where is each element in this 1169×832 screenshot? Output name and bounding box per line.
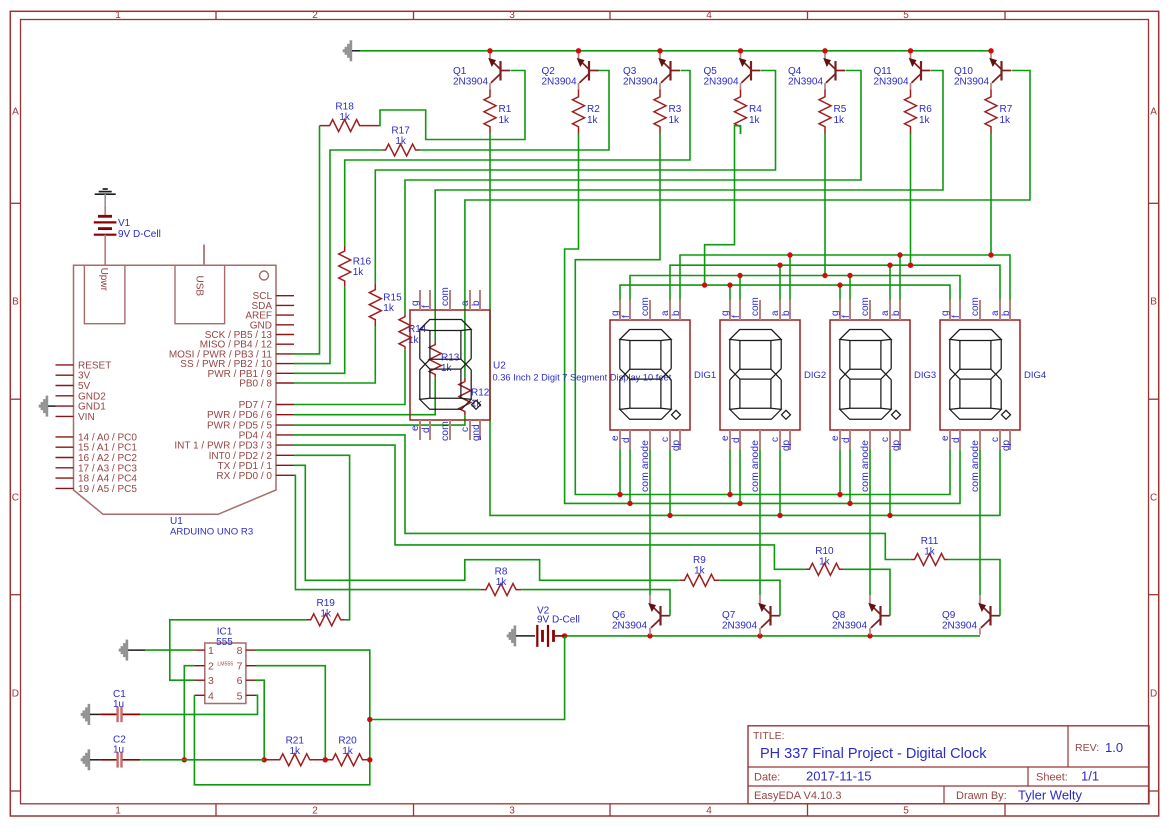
svg-text:a: a <box>770 310 781 316</box>
svg-text:5: 5 <box>903 806 909 817</box>
svg-text:Sheet:: Sheet: <box>1036 772 1068 784</box>
svg-text:IC1: IC1 <box>217 627 233 638</box>
timer IC1 555 <box>194 627 256 704</box>
svg-text:R21: R21 <box>286 736 305 747</box>
svg-text:Q6: Q6 <box>612 610 626 621</box>
junction V2 positive <box>562 633 567 638</box>
svg-text:1k: 1k <box>694 566 706 577</box>
resistor R10 1k <box>805 546 844 575</box>
resistor R15 1k <box>369 283 402 326</box>
svg-text:D: D <box>1150 689 1157 700</box>
svg-text:9V D-Cell: 9V D-Cell <box>118 229 161 240</box>
svg-text:Upwr: Upwr <box>98 268 109 292</box>
wire a bus drop to display at x=830 <box>889 265 891 301</box>
svg-text:R8: R8 <box>495 567 508 578</box>
wire 555 pin 5 to C1 <box>140 695 257 714</box>
wire R16 top to Q3 base <box>345 71 690 246</box>
svg-text:R6: R6 <box>919 104 932 115</box>
display DIG1 7 segment <box>610 297 716 492</box>
wire Arduino pin 10 to R17 <box>294 150 382 364</box>
svg-text:com: com <box>440 287 451 306</box>
svg-text:dp: dp <box>1001 439 1012 451</box>
svg-text:3: 3 <box>509 806 515 817</box>
svg-text:com anode: com anode <box>969 440 981 492</box>
svg-text:1k: 1k <box>289 746 301 757</box>
wire e bus drop display x=830 <box>839 447 841 495</box>
junction d drop <box>627 501 632 506</box>
svg-text:1: 1 <box>115 806 121 817</box>
wire R9 to Q7 base <box>719 580 780 615</box>
svg-text:RX / PD0 / 0: RX / PD0 / 0 <box>216 471 272 482</box>
wire R15 top to Q5 base <box>375 71 775 284</box>
svg-text:R15: R15 <box>383 293 402 304</box>
svg-text:b: b <box>671 310 682 316</box>
svg-text:com: com <box>860 297 871 316</box>
svg-text:Q1: Q1 <box>453 66 467 77</box>
wire g bus drop to display at x=720 <box>729 285 731 301</box>
svg-text:c: c <box>770 437 781 442</box>
transistor Q5 2N3904 <box>704 53 761 90</box>
svg-text:1u: 1u <box>113 745 124 756</box>
junction c drop <box>777 513 782 518</box>
wire Arduino pin 4 to R11 <box>294 435 911 560</box>
svg-text:1k: 1k <box>383 303 395 314</box>
svg-text:R5: R5 <box>834 104 847 115</box>
svg-text:g: g <box>830 310 841 316</box>
svg-text:6: 6 <box>237 675 243 687</box>
svg-text:1/1: 1/1 <box>1081 769 1099 784</box>
wire R5 to segment-f bus <box>824 134 826 276</box>
wire R3 to segment-e bus <box>575 134 950 495</box>
svg-text:a: a <box>460 300 471 306</box>
svg-text:e: e <box>610 435 621 441</box>
wire top emitter rail <box>360 50 991 52</box>
svg-text:R16: R16 <box>353 257 372 268</box>
svg-text:VIN: VIN <box>78 412 95 423</box>
junction pin2 trigger <box>182 757 187 762</box>
svg-text:2: 2 <box>312 806 318 817</box>
svg-text:1k: 1k <box>819 557 831 568</box>
wire d bus drop display x=720 <box>739 447 741 503</box>
svg-text:PWR / PD6 / 6: PWR / PD6 / 6 <box>207 410 272 421</box>
wire d bus drop display x=610 <box>629 447 631 503</box>
wire R11 to Q9 base <box>948 560 1000 616</box>
svg-text:c: c <box>660 437 671 442</box>
display DIG4 7 segment <box>940 297 1046 492</box>
svg-text:e: e <box>720 435 731 441</box>
svg-text:d: d <box>621 437 632 443</box>
transistor Q10 2N3904 <box>954 53 1011 90</box>
wire c bus drop display x=830 <box>889 447 891 515</box>
wire Arduino pin 8 to R15 <box>294 326 375 383</box>
wire R18 to Q1 base <box>379 71 525 140</box>
svg-text:b: b <box>891 310 902 316</box>
wire R13 top to Q11 base <box>435 71 943 342</box>
junction on rail at Q5 emitter <box>738 48 743 53</box>
junction on rail at Q11 emitter <box>908 48 913 53</box>
junction on rail at Q4 emitter <box>822 48 827 53</box>
svg-text:DIG2: DIG2 <box>804 370 826 381</box>
svg-text:d: d <box>731 437 742 443</box>
svg-text:R11: R11 <box>921 536 939 547</box>
svg-text:5: 5 <box>903 10 909 21</box>
wire c bus drop display x=610 <box>669 447 671 515</box>
svg-text:e: e <box>940 435 951 441</box>
transistor Q4 2N3904 <box>788 53 845 90</box>
wire Arduino pin 5 to R12 <box>294 415 465 425</box>
junction R4 feed on g bus <box>702 282 707 287</box>
svg-text:555: 555 <box>216 637 233 648</box>
wire DIG4 com anode to transistor <box>979 447 981 595</box>
svg-text:g: g <box>410 300 421 306</box>
svg-text:1: 1 <box>208 645 214 657</box>
svg-text:2N3904: 2N3904 <box>612 621 647 632</box>
svg-text:1.0: 1.0 <box>1105 740 1123 755</box>
svg-text:f: f <box>731 315 742 318</box>
resistor R4 1k <box>735 90 763 135</box>
svg-text:Q3: Q3 <box>623 66 637 77</box>
svg-text:1k: 1k <box>395 136 407 147</box>
svg-text:3: 3 <box>208 675 214 687</box>
resistor R21 1k <box>264 736 325 766</box>
svg-text:a: a <box>880 310 891 316</box>
transistor Q11 2N3904 <box>874 53 931 90</box>
svg-text:d: d <box>951 437 962 443</box>
svg-text:Date:: Date: <box>754 772 780 784</box>
transistor Q7 2N3904 <box>722 595 780 634</box>
resistor R2 1k <box>573 90 601 135</box>
wire c bus drop display x=720 <box>779 447 781 515</box>
junction rail at Q8 collector <box>867 633 872 638</box>
svg-text:g: g <box>610 310 621 316</box>
svg-text:1k: 1k <box>1000 115 1012 126</box>
svg-text:9V D-Cell: 9V D-Cell <box>537 615 580 626</box>
svg-text:Tyler Welty: Tyler Welty <box>1018 788 1083 803</box>
svg-text:2N3904: 2N3904 <box>874 77 909 88</box>
resistor R6 1k <box>905 90 933 135</box>
wire f bus drop to display at x=720 <box>739 276 741 302</box>
wire segment-a bus <box>670 265 1000 301</box>
wire e bus drop display x=610 <box>619 447 621 495</box>
svg-text:com anode: com anode <box>749 440 761 492</box>
svg-text:4: 4 <box>706 806 712 817</box>
svg-text:19 / A5 / PC5: 19 / A5 / PC5 <box>78 484 137 495</box>
svg-text:com: com <box>970 297 981 316</box>
svg-text:2N3904: 2N3904 <box>788 77 823 88</box>
resistor R7 1k <box>985 90 1013 135</box>
svg-text:f: f <box>421 305 432 308</box>
wire Arduino pin 6 to R13 <box>294 377 435 414</box>
transistor Q6 2N3904 <box>612 595 670 634</box>
svg-text:f: f <box>621 315 632 318</box>
svg-text:2N3904: 2N3904 <box>722 621 757 632</box>
svg-text:U1: U1 <box>170 516 183 527</box>
svg-text:dp: dp <box>781 439 792 451</box>
svg-text:R3: R3 <box>669 104 682 115</box>
svg-text:1k: 1k <box>834 115 846 126</box>
wire 555 pin 7 to R21 R20 junction <box>256 666 325 760</box>
svg-text:com: com <box>439 421 451 441</box>
wire C2 to R21 timing line <box>140 759 264 761</box>
wire R19 to 555 pin 3 <box>170 620 307 680</box>
junction c drop <box>667 513 672 518</box>
svg-text:R2: R2 <box>587 104 600 115</box>
resistor R12 1k <box>459 378 490 415</box>
wire R14 top to Q4 base <box>405 71 861 315</box>
wire 555 pin 1 to ground <box>145 649 194 651</box>
svg-text:2N3904: 2N3904 <box>453 77 488 88</box>
junction g drop <box>837 282 842 287</box>
svg-text:Drawn By:: Drawn By: <box>956 790 1007 802</box>
svg-text:PH 337 Final Project - Digital: PH 337 Final Project - Digital Clock <box>760 746 987 762</box>
wire R6 to segment-a bus <box>910 134 912 265</box>
resistor R1 1k <box>484 90 512 135</box>
battery V1 9V D-Cell <box>94 205 161 265</box>
svg-text:2N3904: 2N3904 <box>832 621 867 632</box>
svg-text:ARDUINO UNO R3: ARDUINO UNO R3 <box>170 527 253 538</box>
junction d drop <box>847 501 852 506</box>
svg-text:gnd: gnd <box>471 424 482 441</box>
svg-text:Q10: Q10 <box>954 66 973 77</box>
wire 555 pin 6 to trigger line <box>256 680 264 760</box>
title block <box>748 726 1149 804</box>
junction g drop <box>727 282 732 287</box>
wire R1 to segment-c bus <box>490 134 1000 515</box>
wire DIG2 com anode to transistor <box>759 447 761 595</box>
junction b drop <box>787 252 792 257</box>
resistor R5 1k <box>819 90 847 135</box>
wire R4 to segment-g bus <box>705 126 741 285</box>
junction rail at Q7 collector <box>757 633 762 638</box>
wire Arduino pin 1 to R9 <box>294 465 680 580</box>
svg-text:1u: 1u <box>113 699 124 710</box>
svg-text:0.36 Inch 2 Digit 7 Segment Di: 0.36 Inch 2 Digit 7 Segment Display 10 f… <box>493 373 672 383</box>
svg-text:d: d <box>421 427 432 433</box>
svg-text:com anode: com anode <box>639 440 651 492</box>
svg-text:R18: R18 <box>335 102 354 113</box>
svg-text:2N3904: 2N3904 <box>942 621 977 632</box>
svg-text:U2: U2 <box>493 361 506 372</box>
svg-text:a: a <box>990 310 1001 316</box>
svg-text:2N3904: 2N3904 <box>954 77 989 88</box>
ground symbol at top rail <box>344 40 360 61</box>
junction R5 feed on f bus <box>822 273 827 278</box>
junction f drop <box>847 273 852 278</box>
wire e bus drop display x=720 <box>729 447 731 495</box>
svg-text:7: 7 <box>237 661 243 673</box>
svg-text:Q7: Q7 <box>722 610 736 621</box>
svg-text:1: 1 <box>115 10 121 21</box>
svg-text:A: A <box>12 107 19 118</box>
svg-text:A: A <box>1150 107 1157 118</box>
svg-text:R7: R7 <box>1000 104 1013 115</box>
resistor R20 1k <box>327 736 370 766</box>
svg-text:C: C <box>12 493 19 504</box>
svg-text:C: C <box>1150 493 1157 504</box>
wire segment-g bus <box>620 285 950 301</box>
svg-text:2: 2 <box>208 661 214 673</box>
svg-text:e: e <box>830 435 841 441</box>
svg-text:R13: R13 <box>441 353 460 364</box>
svg-text:b: b <box>471 300 482 306</box>
svg-text:g: g <box>940 310 951 316</box>
junction on rail at Q2 emitter <box>576 48 581 53</box>
svg-text:Q11: Q11 <box>874 66 893 77</box>
resistor R17 1k <box>382 126 420 157</box>
resistor R11 1k <box>911 536 948 566</box>
svg-text:com: com <box>640 297 651 316</box>
wire 555 pin 2 to trigger line <box>184 666 194 760</box>
svg-text:f: f <box>841 315 852 318</box>
junction on rail at Q10 emitter <box>988 48 993 53</box>
svg-text:LM555: LM555 <box>217 662 233 668</box>
resistor R3 1k <box>654 90 682 135</box>
svg-text:8: 8 <box>237 645 243 657</box>
transistor Q1 2N3904 <box>453 53 510 90</box>
wire g bus drop to display at x=830 <box>839 285 841 301</box>
svg-text:R20: R20 <box>338 736 357 747</box>
junction pin7 discharge <box>323 757 328 762</box>
wire Arduino pin 7 to R14 <box>294 349 405 404</box>
svg-text:2N3904: 2N3904 <box>623 77 658 88</box>
svg-text:DIG4: DIG4 <box>1024 370 1046 381</box>
capacitor C1 1u <box>82 689 141 725</box>
svg-text:D: D <box>12 689 19 700</box>
resistor R18 1k <box>320 102 380 132</box>
svg-text:R17: R17 <box>391 126 410 137</box>
junction R6 feed on a bus <box>908 263 913 268</box>
svg-text:c: c <box>990 437 1001 442</box>
svg-text:1k: 1k <box>499 115 511 126</box>
wire segment-b bus <box>680 255 1010 301</box>
svg-text:DIG3: DIG3 <box>914 370 936 381</box>
svg-text:com anode: com anode <box>859 440 871 492</box>
svg-text:Q2: Q2 <box>542 66 556 77</box>
svg-text:DIG1: DIG1 <box>694 370 716 381</box>
svg-text:e: e <box>410 425 421 431</box>
svg-text:TITLE:: TITLE: <box>753 730 785 742</box>
junction a drop <box>887 263 892 268</box>
svg-text:Q9: Q9 <box>942 610 956 621</box>
svg-text:R12: R12 <box>471 388 490 399</box>
ground at 555 pin 1 <box>120 640 145 661</box>
transistor Q3 2N3904 <box>623 53 680 90</box>
ground above V1 <box>95 189 116 205</box>
svg-text:4: 4 <box>208 690 214 702</box>
svg-text:EasyEDA V4.10.3: EasyEDA V4.10.3 <box>754 790 841 802</box>
ground at Arduino GND1 <box>40 396 56 417</box>
wire Arduino pin 9 to R16 <box>294 287 345 374</box>
wire Arduino pin 0 to R8 <box>294 475 481 589</box>
svg-text:PB0 / 8: PB0 / 8 <box>239 379 272 390</box>
svg-text:USB: USB <box>194 276 205 297</box>
junction 555 power at V2 wire <box>367 717 372 722</box>
resistor R8 1k <box>481 567 522 596</box>
transistor Q2 2N3904 <box>542 53 599 90</box>
svg-text:2N3904: 2N3904 <box>542 77 577 88</box>
svg-text:dp: dp <box>891 439 902 451</box>
wire DIG1 com anode to transistor <box>649 447 651 595</box>
junction pin6 threshold <box>262 757 267 762</box>
wire b bus drop to display at x=830 <box>899 255 901 301</box>
svg-text:R4: R4 <box>749 104 762 115</box>
svg-text:1k: 1k <box>924 547 936 558</box>
svg-text:c: c <box>460 427 471 432</box>
svg-text:com: com <box>750 297 761 316</box>
display U2 0.36 Inch 2 Digit 7 Segment <box>410 287 672 441</box>
svg-text:1k: 1k <box>496 577 508 588</box>
svg-text:dp: dp <box>671 439 682 451</box>
svg-text:4: 4 <box>706 10 712 21</box>
microcontroller U1 Arduino UNO R3 <box>56 245 295 538</box>
junction d drop <box>737 501 742 506</box>
wire R8 to Q6 base <box>521 590 670 616</box>
capacitor C2 1u <box>82 735 141 771</box>
svg-text:B: B <box>1150 297 1157 308</box>
junction rail at Q6 collector <box>647 633 652 638</box>
wire a bus drop to display at x=720 <box>779 265 781 301</box>
wire bottom collector rail <box>565 635 980 637</box>
wire R17 to Q2 base <box>420 71 609 151</box>
transistor Q8 2N3904 <box>832 595 890 634</box>
junction e drop <box>617 492 622 497</box>
svg-text:a: a <box>660 310 671 316</box>
svg-text:Q8: Q8 <box>832 610 846 621</box>
svg-text:1k: 1k <box>339 112 351 123</box>
wire R7 to segment-b bus <box>990 134 992 255</box>
junction R20 right at power vertical <box>367 757 372 762</box>
svg-text:R1: R1 <box>499 104 512 115</box>
wire b bus drop to display at x=720 <box>789 255 791 301</box>
svg-text:V1: V1 <box>118 218 131 229</box>
junction on rail at Q1 emitter <box>487 48 492 53</box>
junction b drop <box>897 252 902 257</box>
battery V2 9V D-Cell <box>508 606 580 647</box>
wire R12 top to Q10 base <box>465 71 1030 378</box>
junction e drop <box>727 492 732 497</box>
junction on rail at Q3 emitter <box>657 48 662 53</box>
svg-text:2017-11-15: 2017-11-15 <box>806 769 872 784</box>
resistor R13 1k <box>429 342 460 378</box>
svg-text:R10: R10 <box>815 546 834 557</box>
svg-text:f: f <box>951 315 962 318</box>
svg-text:b: b <box>781 310 792 316</box>
svg-text:1k: 1k <box>320 608 332 619</box>
junction e drop <box>837 492 842 497</box>
svg-text:Q4: Q4 <box>788 66 802 77</box>
resistor R19 1k <box>307 598 345 626</box>
wire DIG3 com anode to transistor <box>869 447 871 595</box>
resistor R16 1k <box>339 245 372 286</box>
svg-text:1k: 1k <box>919 115 931 126</box>
display DIG3 7 segment <box>830 297 936 492</box>
resistor R14 1k <box>399 314 427 349</box>
junction a drop <box>777 263 782 268</box>
svg-text:1k: 1k <box>669 115 681 126</box>
wire Arduino pin 3 to R10 <box>294 445 805 569</box>
svg-text:1k: 1k <box>353 267 365 278</box>
wire segment-f bus <box>630 276 960 302</box>
svg-text:b: b <box>1001 310 1012 316</box>
wire R10 to Q8 base <box>844 569 890 615</box>
display DIG2 7 segment <box>720 297 826 492</box>
wire 555 pin 8 power loop <box>194 650 369 785</box>
svg-text:1k: 1k <box>587 115 599 126</box>
wire Arduino pin 11 to R18 <box>294 126 320 354</box>
svg-text:d: d <box>841 437 852 443</box>
svg-text:2N3904: 2N3904 <box>704 77 739 88</box>
svg-text:5: 5 <box>237 690 243 702</box>
